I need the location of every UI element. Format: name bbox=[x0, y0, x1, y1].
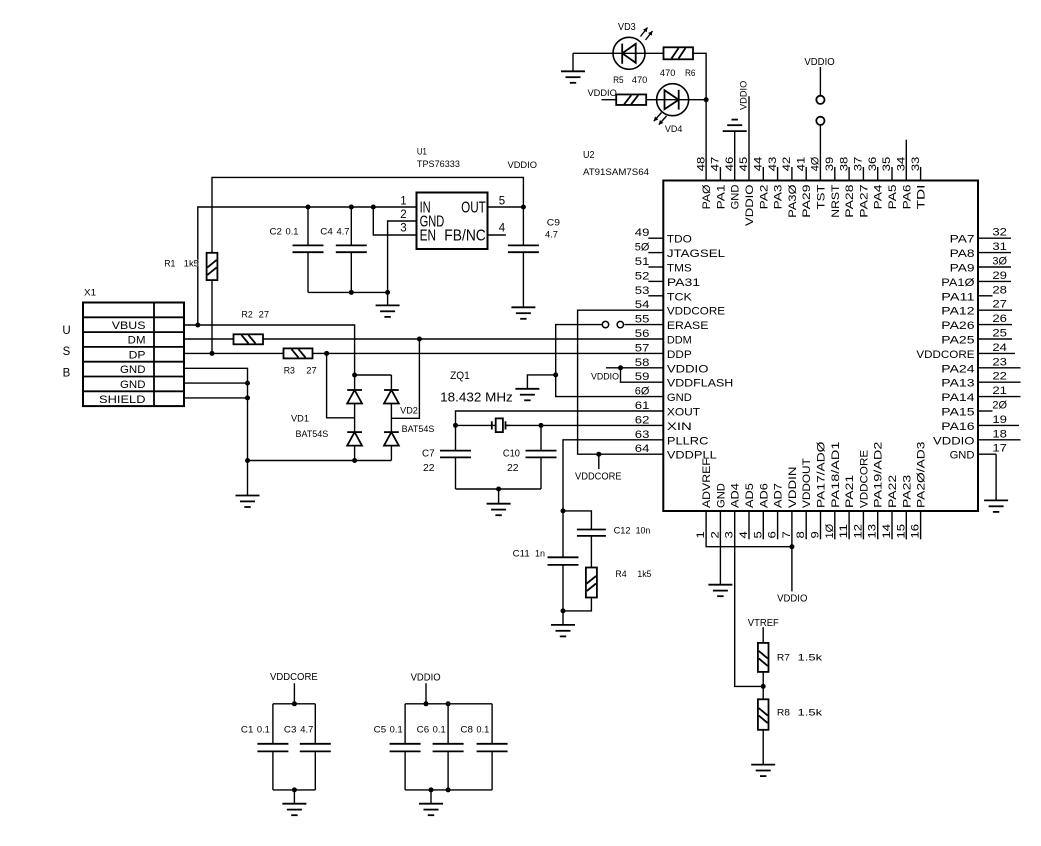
diode VD2 (BAT54S) bbox=[384, 375, 399, 461]
svg-text:VDDCORE: VDDCORE bbox=[916, 349, 974, 361]
svg-text:DM: DM bbox=[128, 335, 146, 347]
svg-text:22: 22 bbox=[507, 462, 519, 474]
U2 pin 4 AD5 (bottom) bbox=[738, 483, 756, 539]
net label VTREF bbox=[748, 618, 779, 629]
node bank1 top bbox=[292, 701, 297, 706]
wire VDDCORE bank stem bbox=[293, 683, 295, 704]
svg-text:18: 18 bbox=[992, 428, 1007, 440]
wire X1 GND row 2 bbox=[184, 382, 248, 384]
capacitor C6 bbox=[433, 704, 464, 790]
resistor R7 bbox=[758, 643, 769, 672]
label B (USB) bbox=[63, 368, 71, 380]
capacitor C11 bbox=[548, 557, 579, 611]
wire USB ground rail bbox=[248, 460, 392, 462]
U2 pin 43 PA3 (top) bbox=[767, 157, 785, 210]
svg-text:TST: TST bbox=[816, 184, 828, 209]
svg-text:XIN: XIN bbox=[667, 421, 692, 433]
U2 pin 35 PA5 (top) bbox=[881, 157, 899, 210]
svg-text:PA27: PA27 bbox=[858, 185, 870, 218]
wire crystal right bbox=[506, 424, 542, 426]
U2 pin 14 PA22 (bottom) bbox=[881, 475, 899, 540]
label TPS76333 bbox=[417, 159, 460, 169]
resistor R5 bbox=[616, 94, 646, 105]
svg-text:19: 19 bbox=[992, 414, 1007, 426]
node bank2 ground bbox=[429, 787, 434, 792]
jumper circle ERASE left bbox=[602, 321, 608, 327]
label R6 value bbox=[660, 68, 696, 78]
svg-text:63: 63 bbox=[635, 429, 650, 441]
U2 pin 29 PA1Ø (right) bbox=[941, 270, 1011, 289]
svg-text:OUT: OUT bbox=[461, 200, 486, 217]
capacitor C3 bbox=[300, 704, 331, 790]
svg-text:22: 22 bbox=[992, 371, 1007, 383]
svg-text:64: 64 bbox=[635, 443, 650, 455]
svg-text:S: S bbox=[63, 346, 71, 358]
U2 pin 27 PA12 (right) bbox=[941, 299, 1012, 318]
svg-text:5Ø: 5Ø bbox=[635, 242, 650, 254]
svg-text:3: 3 bbox=[724, 531, 736, 538]
U2 pin 59 VDDFLASH (left) bbox=[635, 371, 734, 390]
node VBUS riser bbox=[195, 323, 200, 328]
wire XIN bbox=[541, 424, 663, 426]
svg-text:8: 8 bbox=[795, 531, 807, 538]
label C10 value bbox=[507, 462, 519, 474]
jumper terminal circle upper bbox=[816, 96, 824, 104]
svg-text:R7: R7 bbox=[777, 653, 790, 664]
svg-text:PA21: PA21 bbox=[844, 475, 856, 508]
node DM-VD2 bbox=[417, 337, 422, 342]
node GND2 join bbox=[245, 381, 250, 386]
wire VD1 mid tap bbox=[327, 353, 355, 417]
svg-text:BAT54S: BAT54S bbox=[402, 424, 435, 434]
svg-text:PA13: PA13 bbox=[941, 378, 974, 390]
U1 pin label GND bbox=[420, 213, 445, 230]
resistor R1 bbox=[207, 253, 218, 354]
U2 pin 45 VDDIO (top) bbox=[738, 157, 756, 226]
label C11 value bbox=[513, 549, 545, 559]
wire X1 SHIELD bbox=[184, 397, 248, 399]
wire pin 34 stub up bbox=[905, 140, 907, 181]
svg-text:5: 5 bbox=[752, 531, 764, 538]
svg-text:AD7: AD7 bbox=[773, 483, 785, 508]
svg-text:61: 61 bbox=[635, 400, 650, 412]
jumper terminal circle lower bbox=[816, 117, 824, 125]
U2 pin 30 PA9 (right) bbox=[950, 256, 1011, 275]
U1 pin label IN bbox=[420, 200, 431, 217]
svg-text:VDDCORE: VDDCORE bbox=[575, 471, 622, 482]
U2 pin 15 PA23 (bottom) bbox=[895, 475, 913, 540]
svg-text:2: 2 bbox=[709, 531, 721, 538]
svg-text:PA17/ADØ: PA17/ADØ bbox=[816, 441, 828, 508]
svg-text:VD2: VD2 bbox=[400, 405, 418, 415]
svg-text:ZQ1: ZQ1 bbox=[450, 370, 470, 382]
svg-text:GND: GND bbox=[667, 392, 692, 404]
svg-text:R4: R4 bbox=[615, 569, 626, 579]
svg-text:DDP: DDP bbox=[667, 349, 692, 361]
label R7 value bbox=[777, 653, 823, 664]
svg-text:62: 62 bbox=[635, 414, 650, 426]
wire R7 to node bbox=[762, 672, 764, 699]
label ZQ1 bbox=[450, 370, 470, 382]
svg-text:NRST: NRST bbox=[830, 184, 842, 218]
wire VD3 cathode bbox=[573, 52, 613, 54]
U2 pin 61 XOUT (left) bbox=[635, 400, 701, 419]
svg-text:TDO: TDO bbox=[667, 234, 692, 246]
svg-text:BAT54S: BAT54S bbox=[296, 429, 329, 439]
wire U1 GND pin 2 bbox=[388, 221, 417, 292]
node DP-R1 bbox=[210, 351, 215, 356]
svg-text:PA12: PA12 bbox=[941, 306, 974, 318]
svg-text:C10: C10 bbox=[503, 448, 520, 460]
svg-text:C6: C6 bbox=[417, 724, 430, 734]
U2 pin 49 TDO (left) bbox=[635, 227, 692, 246]
X1 row label DM bbox=[128, 335, 146, 347]
U2 pin 55 ERASE (left) bbox=[635, 314, 709, 333]
diode VD1 (BAT54S) bbox=[347, 375, 362, 461]
jumper circle ERASE right bbox=[617, 321, 623, 327]
U2 pin 9 PA17/ADØ (bottom) bbox=[810, 441, 828, 539]
svg-text:PA8: PA8 bbox=[950, 248, 975, 260]
wire VTREF to R7 bbox=[762, 627, 764, 643]
svg-text:VDDIO: VDDIO bbox=[667, 363, 709, 375]
svg-text:1Ø: 1Ø bbox=[824, 523, 836, 538]
label X1 bbox=[84, 288, 96, 298]
node GND rail corner bbox=[245, 458, 250, 463]
ground (U1) bbox=[376, 292, 400, 317]
label VD1 type BAT54S bbox=[296, 429, 329, 439]
svg-text:VD4: VD4 bbox=[665, 124, 683, 135]
node C6 bottom bbox=[446, 787, 451, 792]
U2 pin 36 PA4 (top) bbox=[867, 157, 885, 210]
wire OUT pin 5 bbox=[488, 206, 524, 208]
label C3 value bbox=[284, 724, 313, 734]
wire VDDIO-VDDFLASH link bbox=[606, 368, 663, 382]
node SHIELD join bbox=[245, 395, 250, 400]
U2 pin 32 PA7 (right) bbox=[950, 227, 1011, 246]
svg-text:PA24: PA24 bbox=[941, 363, 974, 375]
svg-text:VD1: VD1 bbox=[291, 414, 309, 424]
svg-text:X1: X1 bbox=[84, 288, 96, 298]
LED VD4 bbox=[654, 84, 689, 125]
svg-text:4.7: 4.7 bbox=[300, 724, 313, 734]
label VD2 bbox=[400, 405, 418, 415]
wire bank1 top rail bbox=[273, 703, 315, 705]
svg-text:PA7: PA7 bbox=[950, 234, 975, 246]
svg-text:PA14: PA14 bbox=[941, 392, 974, 404]
wire VDDIO top rail bbox=[212, 177, 523, 252]
node R7-R8 divider bbox=[761, 684, 766, 689]
svg-text:VDDCORE: VDDCORE bbox=[858, 450, 870, 508]
svg-text:38: 38 bbox=[838, 157, 850, 172]
U1 pin label FB/NC bbox=[444, 227, 486, 244]
label C9 bbox=[547, 218, 560, 228]
wire VD4 to node bbox=[689, 99, 707, 101]
wire VDDIN down bbox=[791, 511, 793, 591]
svg-text:VBUS: VBUS bbox=[112, 320, 146, 332]
U2 pin 24 VDDCORE (right) bbox=[916, 342, 1015, 361]
svg-text:FB/NC: FB/NC bbox=[444, 227, 486, 244]
svg-text:VDDIN: VDDIN bbox=[787, 466, 799, 508]
svg-text:0.1: 0.1 bbox=[390, 724, 403, 734]
label VD1 bbox=[291, 414, 309, 424]
svg-text:27: 27 bbox=[259, 310, 270, 320]
svg-text:16: 16 bbox=[910, 524, 922, 539]
U2 pin 18 VDDIO (right) bbox=[933, 428, 1021, 447]
svg-text:PA4: PA4 bbox=[873, 185, 885, 210]
svg-text:10n: 10n bbox=[636, 526, 651, 536]
svg-text:4: 4 bbox=[499, 223, 506, 235]
svg-text:VDDIO: VDDIO bbox=[804, 57, 835, 68]
wire VD3-R6 bbox=[645, 52, 664, 54]
svg-text:VDDIO: VDDIO bbox=[508, 160, 538, 171]
node C4 bottom bbox=[349, 290, 354, 295]
U2 pin 21 PA14 (right) bbox=[941, 385, 1020, 404]
svg-text:PA3: PA3 bbox=[773, 185, 785, 210]
wire ground branch bbox=[527, 375, 555, 389]
svg-text:15: 15 bbox=[895, 524, 907, 539]
svg-text:PA1: PA1 bbox=[715, 185, 727, 210]
node XOUT-C7 bbox=[453, 423, 458, 428]
svg-text:53: 53 bbox=[635, 285, 650, 297]
svg-text:AT91SAM7S64: AT91SAM7S64 bbox=[583, 167, 649, 178]
label C10 bbox=[503, 448, 520, 460]
ground (VD3 branch) bbox=[561, 53, 585, 83]
ground (R8) bbox=[751, 765, 775, 777]
svg-text:C2: C2 bbox=[270, 227, 283, 237]
node VDDIN junction bbox=[789, 544, 794, 549]
U1 pin number 1 bbox=[400, 196, 406, 208]
connector X1 body bbox=[83, 303, 184, 407]
U2 pin 23 PA24 (right) bbox=[941, 356, 1020, 375]
svg-text:32: 32 bbox=[992, 227, 1007, 239]
U2 pin 50 JTAGSEL (left) bbox=[635, 242, 725, 261]
X1 row label GND (1) bbox=[120, 364, 146, 376]
label C7 bbox=[422, 448, 435, 460]
U2 pin 41 PA29 (top) bbox=[795, 157, 813, 218]
wire ERASE to GND net bbox=[556, 325, 664, 397]
svg-text:34: 34 bbox=[896, 157, 908, 172]
svg-text:47: 47 bbox=[710, 157, 722, 172]
svg-text:31: 31 bbox=[992, 241, 1007, 253]
svg-text:PA9: PA9 bbox=[950, 263, 975, 275]
U2 pin 56 DDM (left) bbox=[635, 328, 692, 347]
svg-text:1: 1 bbox=[400, 196, 406, 208]
svg-text:VDDIO: VDDIO bbox=[739, 81, 750, 110]
label C9 value bbox=[545, 230, 558, 240]
U1 pin number 3 bbox=[400, 223, 406, 235]
X1 row label SHIELD bbox=[99, 394, 146, 406]
net label VDDCORE (bank) bbox=[270, 672, 318, 683]
node crystal ground bbox=[496, 487, 501, 492]
svg-text:4Ø: 4Ø bbox=[810, 156, 822, 171]
wire ADVREF to VDDIN bbox=[706, 511, 792, 547]
svg-text:VDDFLASH: VDDFLASH bbox=[667, 378, 733, 390]
wire VDDIO-R5 bbox=[602, 99, 617, 101]
svg-text:PA2Ø/AD3: PA2Ø/AD3 bbox=[916, 442, 928, 508]
svg-text:GND: GND bbox=[120, 364, 146, 376]
svg-text:PAØ: PAØ bbox=[701, 184, 713, 209]
node VD1 top bbox=[352, 373, 357, 378]
svg-text:24: 24 bbox=[992, 342, 1007, 354]
IC U2 AT91SAM7S64 body bbox=[663, 181, 978, 512]
resistor R4 bbox=[586, 568, 597, 598]
wire R8 to ground bbox=[762, 730, 764, 765]
label S (USB) bbox=[63, 346, 71, 358]
svg-text:1n: 1n bbox=[535, 549, 545, 559]
svg-text:PA3Ø: PA3Ø bbox=[787, 184, 799, 218]
label U2 bbox=[583, 150, 595, 161]
wire VDDIO bank stem bbox=[425, 683, 427, 704]
U1 pin label EN bbox=[420, 227, 436, 244]
svg-text:PA25: PA25 bbox=[941, 335, 974, 347]
svg-text:C7: C7 bbox=[422, 448, 435, 460]
resistor R6 bbox=[664, 47, 694, 59]
svg-text:18.432 MHz: 18.432 MHz bbox=[440, 391, 513, 405]
svg-text:0.1: 0.1 bbox=[257, 724, 270, 734]
svg-text:GND: GND bbox=[715, 483, 727, 508]
wire PLLRC down bbox=[563, 440, 663, 558]
label R5 value bbox=[613, 75, 647, 85]
resistor R2 bbox=[234, 334, 264, 344]
U2 pin 8 VDDOUT (bottom) bbox=[795, 458, 813, 539]
node ERASE ground branch bbox=[553, 372, 558, 377]
wire C12 branch bbox=[563, 511, 591, 530]
svg-text:12: 12 bbox=[852, 524, 864, 539]
net label VDDIO (U1 output) bbox=[508, 160, 538, 171]
svg-text:PA29: PA29 bbox=[801, 185, 813, 218]
svg-text:DDM: DDM bbox=[667, 335, 692, 347]
svg-text:5: 5 bbox=[499, 196, 505, 208]
svg-text:28: 28 bbox=[992, 284, 1007, 296]
svg-text:37: 37 bbox=[853, 157, 865, 172]
U2 pin 46 GND (top) bbox=[724, 157, 742, 210]
svg-text:48: 48 bbox=[695, 157, 707, 172]
svg-text:43: 43 bbox=[767, 157, 779, 172]
svg-text:PA16: PA16 bbox=[941, 421, 974, 433]
svg-text:PLLRC: PLLRC bbox=[667, 435, 709, 447]
U2 pin 31 PA8 (right) bbox=[950, 241, 1011, 260]
U2 pin 16 PA2Ø/AD3 (bottom) bbox=[910, 442, 928, 540]
svg-text:TPS76333: TPS76333 bbox=[417, 159, 460, 169]
svg-text:44: 44 bbox=[753, 157, 765, 172]
wire jumper to pin 40 bbox=[819, 125, 821, 181]
node bank2 stem bbox=[424, 701, 429, 706]
svg-text:PA31: PA31 bbox=[667, 277, 700, 289]
label U (USB) bbox=[62, 325, 70, 337]
regulator U1 TPS76333 bbox=[417, 193, 488, 250]
U2 pin 13 PA19/AD2 (bottom) bbox=[867, 442, 885, 540]
svg-text:1k5: 1k5 bbox=[184, 258, 199, 268]
svg-text:0.1: 0.1 bbox=[476, 724, 489, 734]
U2 pin 17 GND (right) bbox=[950, 443, 1007, 462]
wire GND pin 2 bbox=[719, 511, 721, 585]
label C8 value bbox=[460, 724, 489, 734]
ground (pin 46, inverted) bbox=[723, 120, 747, 181]
resistor R8 bbox=[758, 699, 769, 730]
node VDDCORE label stub bbox=[596, 452, 601, 457]
wire R4 bottom bbox=[563, 598, 591, 611]
ground (crystal) bbox=[487, 489, 511, 515]
U2 pin 34 PA6 (top) bbox=[896, 157, 914, 210]
svg-text:7: 7 bbox=[781, 531, 793, 538]
U2 pin 52 PA31 (left) bbox=[635, 270, 700, 289]
svg-text:TMS: TMS bbox=[667, 263, 692, 275]
U1 pin number 2 bbox=[400, 209, 406, 221]
svg-text:1.5k: 1.5k bbox=[798, 653, 823, 664]
svg-text:PA15: PA15 bbox=[941, 407, 974, 419]
svg-text:39: 39 bbox=[824, 157, 836, 172]
label C7 value bbox=[423, 462, 435, 474]
U1 pin label OUT bbox=[461, 200, 486, 217]
label ZQ1 frequency bbox=[440, 391, 513, 405]
svg-text:DP: DP bbox=[129, 349, 146, 361]
U2 pin 37 PA27 (top) bbox=[853, 157, 871, 218]
U2 pin 3 AD4 (bottom) bbox=[724, 483, 742, 538]
wire bank2 bottom rail bbox=[405, 789, 492, 791]
svg-text:PA2: PA2 bbox=[758, 185, 770, 210]
wire crystal ground rail bbox=[456, 488, 542, 490]
wire VD1-VD2 top link bbox=[355, 374, 392, 376]
svg-text:EN: EN bbox=[420, 227, 436, 244]
label C12 value bbox=[614, 526, 651, 536]
svg-text:VDDIO: VDDIO bbox=[777, 594, 808, 605]
svg-text:PA18/AD1: PA18/AD1 bbox=[830, 442, 842, 508]
svg-text:GND: GND bbox=[120, 379, 146, 391]
wire VDDCORE label stub bbox=[598, 454, 600, 469]
wire VDDIO to jumper bbox=[819, 67, 821, 96]
svg-text:PA5: PA5 bbox=[887, 185, 899, 210]
node EN branch bbox=[371, 205, 376, 210]
U2 pin 63 PLLRC (left) bbox=[635, 429, 709, 448]
svg-text:XOUT: XOUT bbox=[667, 407, 700, 419]
label VD2 type BAT54S bbox=[402, 424, 435, 434]
U2 pin 7 VDDIN (bottom) bbox=[781, 466, 799, 538]
svg-text:PA11: PA11 bbox=[941, 291, 974, 303]
svg-text:VDDIO: VDDIO bbox=[933, 435, 975, 447]
capacitor C2 bbox=[293, 207, 324, 292]
svg-text:ADVREF: ADVREF bbox=[701, 458, 713, 508]
capacitor C4 bbox=[336, 207, 367, 292]
svg-text:54: 54 bbox=[635, 299, 650, 311]
svg-text:VD3: VD3 bbox=[618, 22, 636, 33]
svg-text:AD4: AD4 bbox=[730, 483, 742, 508]
U2 pin 1 ADVREF (bottom) bbox=[695, 458, 713, 539]
svg-text:C8: C8 bbox=[460, 724, 473, 734]
svg-text:36: 36 bbox=[867, 157, 879, 172]
svg-text:0.1: 0.1 bbox=[433, 724, 446, 734]
svg-text:VDDIO: VDDIO bbox=[411, 673, 441, 684]
svg-text:33: 33 bbox=[910, 157, 922, 172]
node VDDIO link bbox=[618, 365, 623, 370]
svg-text:VDDCORE: VDDCORE bbox=[667, 306, 725, 318]
U2 pin 33 TDI (top) bbox=[910, 157, 928, 210]
svg-text:R5: R5 bbox=[613, 75, 624, 85]
svg-text:45: 45 bbox=[738, 157, 750, 172]
svg-text:1.5k: 1.5k bbox=[798, 708, 823, 719]
ground (ERASE net) bbox=[515, 389, 539, 401]
wire VDDIO rail pin 45 bbox=[748, 96, 750, 180]
svg-text:49: 49 bbox=[635, 227, 650, 239]
svg-text:R2: R2 bbox=[242, 310, 253, 320]
svg-text:U2: U2 bbox=[583, 150, 595, 161]
svg-text:SHIELD: SHIELD bbox=[99, 394, 146, 406]
svg-text:6Ø: 6Ø bbox=[635, 386, 650, 398]
U2 pin 53 TCK (left) bbox=[635, 285, 693, 304]
label VD3 bbox=[618, 22, 636, 33]
U2 pin 47 PA1 (top) bbox=[710, 157, 728, 210]
svg-text:TCK: TCK bbox=[667, 291, 693, 303]
svg-text:4: 4 bbox=[738, 531, 750, 538]
